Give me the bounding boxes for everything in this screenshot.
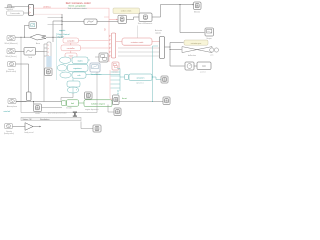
svg-text:wind ref: wind ref — [4, 110, 11, 113]
svg-text:(body axes): (body axes) — [4, 133, 14, 135]
svg-text:Simulation: Simulation — [40, 118, 49, 121]
svg-text:dynamics: dynamics — [136, 82, 144, 84]
svg-text:controller: controller — [67, 47, 75, 50]
svg-text:actuator cmds: actuator cmds — [131, 41, 144, 44]
svg-text:Wind (Force): Wind (Force) — [6, 55, 17, 58]
svg-text:autopilot: autopilot — [67, 40, 75, 43]
svg-text:System: System — [58, 35, 65, 38]
svg-text:Commands: Commands — [10, 13, 20, 15]
svg-text:signals: signals — [59, 30, 65, 32]
svg-text:body accel: body accel — [24, 132, 34, 134]
svg-text:Aero: Aero — [36, 42, 40, 45]
svg-text:Monitor: Monitor — [194, 10, 201, 13]
svg-text:winds: winds — [35, 113, 40, 115]
svg-text:Teal = airframe states: Teal = airframe states — [67, 7, 87, 10]
svg-text:actuators: actuators — [137, 76, 145, 79]
svg-text:pos: pos — [211, 54, 214, 56]
svg-text:equations: equations — [73, 67, 81, 70]
svg-text:Wind (Moment): Wind (Moment) — [5, 42, 18, 45]
svg-text:gear and ground model: gear and ground model — [48, 112, 67, 114]
svg-text:actuator pos: actuator pos — [191, 42, 201, 45]
svg-text:engine dynamics: engine dynamics — [85, 109, 99, 111]
svg-text:Green = propulsion: Green = propulsion — [68, 5, 86, 8]
svg-text:throttle: throttle — [66, 107, 72, 110]
svg-text:states: states — [77, 59, 82, 62]
svg-text:(Earth axes): (Earth axes) — [6, 70, 17, 73]
svg-text:deflection: deflection — [188, 54, 196, 57]
svg-text:calc: calc — [77, 75, 80, 77]
svg-text:Red = command + control: Red = command + control — [66, 2, 91, 5]
svg-text:turbofan engine: turbofan engine — [91, 102, 106, 105]
svg-text:Turb: Turb — [28, 56, 32, 59]
svg-text:signals: signals — [155, 33, 161, 35]
svg-text:position: position — [200, 70, 206, 73]
svg-text:Atmosphere: Atmosphere — [7, 105, 17, 108]
svg-text:Status OK: Status OK — [23, 118, 33, 121]
svg-text:Sum of Elements: Sum of Elements — [138, 22, 152, 25]
svg-text:Scope: Scope — [206, 38, 211, 40]
svg-text:select cmds: select cmds — [121, 10, 132, 13]
svg-text:thrust: thrust — [122, 97, 127, 100]
